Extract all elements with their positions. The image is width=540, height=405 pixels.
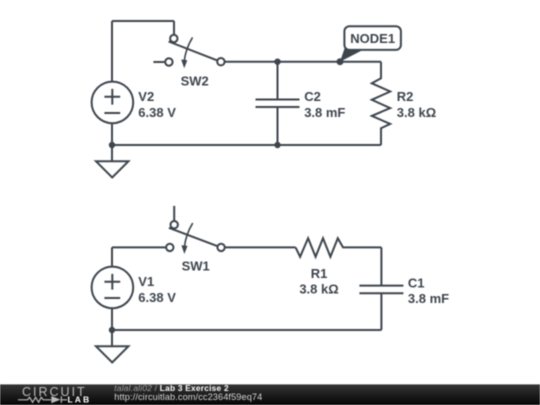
svg-text:LAB: LAB — [68, 394, 92, 404]
svg-text:C1: C1 — [408, 275, 425, 290]
svg-text:SW1: SW1 — [182, 259, 210, 274]
svg-text:V1: V1 — [138, 274, 154, 289]
svg-text:NODE1: NODE1 — [350, 31, 395, 46]
svg-text:SW2: SW2 — [181, 73, 209, 88]
svg-text:6.38 V: 6.38 V — [138, 105, 176, 120]
svg-text:R1: R1 — [311, 266, 328, 281]
svg-text:3.8 kΩ: 3.8 kΩ — [299, 282, 338, 297]
svg-text:V2: V2 — [138, 89, 154, 104]
svg-text:6.38 V: 6.38 V — [138, 290, 176, 305]
svg-text:3.8 mF: 3.8 mF — [408, 291, 449, 306]
svg-text:http://circuitlab.com/cc2364f5: http://circuitlab.com/cc2364f59eq74 — [114, 392, 262, 402]
svg-text:3.8 mF: 3.8 mF — [304, 105, 345, 120]
svg-text:3.8 kΩ: 3.8 kΩ — [397, 105, 436, 120]
svg-text:C2: C2 — [304, 89, 321, 104]
svg-text:R2: R2 — [397, 89, 414, 104]
